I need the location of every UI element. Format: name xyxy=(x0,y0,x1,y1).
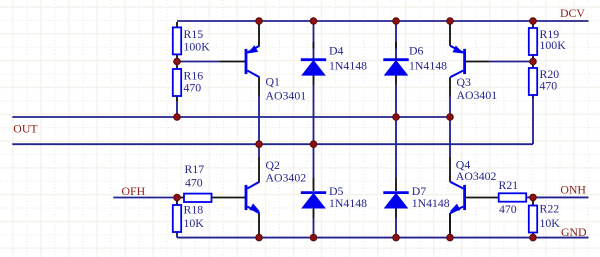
junction D7-GND xyxy=(393,234,400,241)
wire R15 bottom junction to Q1 base xyxy=(177,61,220,63)
junction Q1Q2-lower xyxy=(256,141,263,148)
pin D7 bottom xyxy=(395,208,397,218)
pin Q4 emitter xyxy=(449,213,451,237)
resistor R18 xyxy=(173,203,204,233)
svg-text:AO3401: AO3401 xyxy=(266,89,307,103)
svg-text:1N4148: 1N4148 xyxy=(329,59,367,73)
pin R20 top xyxy=(532,63,534,69)
pin Q3 emitter xyxy=(449,21,451,46)
svg-text:AO3401: AO3401 xyxy=(457,88,498,102)
pin Q3 base xyxy=(465,61,489,63)
wire R20 bottom to lower wire xyxy=(532,98,534,145)
svg-text:470: 470 xyxy=(540,79,558,93)
wire Q3 base to R19 junction xyxy=(489,61,533,63)
pin R15 bottom xyxy=(176,54,178,60)
pin D4 bottom xyxy=(313,75,315,85)
svg-text:OUT: OUT xyxy=(13,121,38,135)
pin Q4 collector xyxy=(449,157,451,182)
junction R21-R22-ONH xyxy=(530,194,537,201)
pin D7 top xyxy=(395,178,397,192)
pin Q2 emitter xyxy=(258,213,260,237)
junction D6-OUT xyxy=(393,114,400,121)
svg-text:100K: 100K xyxy=(540,38,567,52)
svg-text:AO3402: AO3402 xyxy=(266,170,307,184)
svg-text:Q1: Q1 xyxy=(266,75,281,89)
wire Q1 collector to lower wire xyxy=(258,97,260,145)
diode D6 xyxy=(383,44,447,75)
junction Q3-OUT xyxy=(447,114,454,121)
wire horizontal lower (to R20) xyxy=(12,143,533,145)
svg-text:470: 470 xyxy=(185,176,203,190)
svg-text:GND: GND xyxy=(561,225,587,239)
svg-text:ONH: ONH xyxy=(560,183,586,197)
svg-text:R22: R22 xyxy=(540,202,560,216)
junction D5-GND xyxy=(310,234,317,241)
pin R16 top xyxy=(176,63,178,69)
resistor R22 xyxy=(529,202,560,233)
pin D6 top xyxy=(395,42,397,49)
svg-text:D6: D6 xyxy=(409,44,424,58)
junction Q2-GND xyxy=(256,234,263,241)
resistor R19 xyxy=(529,27,566,55)
svg-text:100K: 100K xyxy=(184,40,211,54)
diode D5 xyxy=(301,184,367,210)
junction rail-D6 xyxy=(393,18,400,25)
pin D6 bottom xyxy=(395,75,397,85)
resistor R20 xyxy=(529,67,559,95)
wire R22 bottom stub xyxy=(532,232,534,238)
wire R16 to OUT xyxy=(176,100,178,117)
pin Q3 collector xyxy=(449,77,451,96)
pin Q4 base / R21 pin xyxy=(465,197,499,199)
junction D4D5-lower xyxy=(310,141,317,148)
wire OFH stub xyxy=(113,197,177,199)
resistor R16 xyxy=(173,69,203,97)
resistor R15 xyxy=(173,27,210,54)
wire D6 top xyxy=(395,21,397,59)
wire ONH stub xyxy=(533,196,589,198)
pin R19 top xyxy=(532,22,534,28)
wire DCV top rail xyxy=(177,20,589,22)
junction R22-GND xyxy=(530,234,537,241)
wire D4 anode down xyxy=(313,21,315,59)
svg-text:1N4148: 1N4148 xyxy=(412,196,450,210)
junction rail-Q3 xyxy=(447,18,454,25)
pin R22 bottom xyxy=(532,231,534,234)
svg-text:R17: R17 xyxy=(185,162,205,176)
svg-text:1N4148: 1N4148 xyxy=(409,59,447,73)
svg-text:10K: 10K xyxy=(540,216,561,230)
junction R16-OUT xyxy=(174,114,181,121)
wire lower wire to Q2 xyxy=(258,144,260,157)
junction R19-R20-Q3base xyxy=(530,58,537,65)
svg-text:1N4148: 1N4148 xyxy=(329,196,367,210)
transistor Q2 xyxy=(246,158,306,213)
junction rail-Q1 xyxy=(256,18,263,25)
diode D4 xyxy=(301,44,367,75)
wire D4 to D5 vertical xyxy=(313,85,315,178)
svg-text:470: 470 xyxy=(499,202,517,216)
wire D5 cathode up segment xyxy=(313,218,315,238)
wire OUT horizontal upper xyxy=(12,116,450,118)
transistor Q4 xyxy=(450,158,497,214)
transistor Q3 xyxy=(450,46,497,102)
wire GND bottom rail xyxy=(177,237,589,239)
junction rail-R19 xyxy=(530,18,537,25)
transistor Q1 xyxy=(246,45,306,102)
pin Q2 base / R17 pin xyxy=(212,197,245,199)
wire R18 bottom corner xyxy=(176,232,178,238)
pin R22 top xyxy=(532,199,534,206)
svg-text:OFH: OFH xyxy=(122,184,146,198)
pin R15 top xyxy=(176,22,178,27)
pin D5 bottom xyxy=(313,208,315,218)
junction OFH-R17-R18 xyxy=(174,194,181,201)
pin D4 top xyxy=(313,42,315,49)
pin D5 top xyxy=(313,178,315,192)
wire R21 right stub xyxy=(527,196,533,198)
svg-text:DCV: DCV xyxy=(560,6,585,20)
wire Q3 collector down to OUT xyxy=(449,97,451,158)
wire Q4 bottom region xyxy=(449,213,451,238)
junction rail-D4 xyxy=(310,18,317,25)
pin R16 bottom xyxy=(176,96,178,101)
pin R19 bottom xyxy=(532,54,534,60)
junction R15-R16-Q1base xyxy=(174,58,181,65)
svg-text:R18: R18 xyxy=(184,203,204,217)
pin Q1 base xyxy=(220,61,246,63)
junction Q4-GND xyxy=(447,234,454,241)
svg-text:R21: R21 xyxy=(499,178,519,192)
pin R18 top xyxy=(176,199,178,205)
pin Q1 collector xyxy=(258,77,260,96)
pin R17 left xyxy=(179,197,184,199)
resistor R21 xyxy=(499,178,527,216)
pin Q1 emitter xyxy=(258,21,260,46)
svg-text:470: 470 xyxy=(184,81,202,95)
pin Q2 collector xyxy=(258,157,260,182)
svg-text:AO3402: AO3402 xyxy=(456,169,497,183)
svg-text:D4: D4 xyxy=(329,44,344,58)
resistor R17 xyxy=(184,162,212,202)
wire D6 to OUT and D7 xyxy=(395,85,397,178)
diode D7 xyxy=(383,184,450,210)
svg-text:10K: 10K xyxy=(184,216,205,230)
wire D7 bottom xyxy=(395,218,397,238)
pin R20 bottom xyxy=(532,94,534,99)
pin R18 bottom xyxy=(176,231,178,234)
